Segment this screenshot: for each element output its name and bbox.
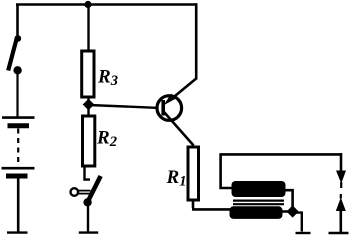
- wire winding top right down: [285, 190, 293, 209]
- key S2 (telegraph key contact): [71, 176, 101, 207]
- wire junction to terminal: [294, 213, 302, 232]
- node secondary junction: [287, 205, 299, 217]
- transformer T1 primary winding: [232, 181, 286, 197]
- svg-text:R3: R3: [97, 67, 118, 90]
- wire emitter to top rail: [195, 3, 198, 79]
- svg-text:R1: R1: [166, 167, 187, 190]
- wire winding top-left loop to spark gap: [221, 154, 341, 188]
- switch S1 (open knife switch): [8, 35, 22, 74]
- wire secondary right lead: [282, 210, 289, 213]
- terminal bar key: [79, 231, 98, 233]
- node top junction: [84, 1, 91, 8]
- terminal bar secondary: [296, 232, 311, 234]
- spark gap upper electrode: [336, 153, 346, 188]
- spark gap lower electrode: [329, 194, 349, 233]
- svg-text:R2: R2: [96, 128, 117, 151]
- transformer T1 secondary winding: [230, 206, 283, 219]
- wire base to transistor: [89, 105, 156, 108]
- wire top rail: [16, 3, 197, 6]
- wire left vertical to switch: [16, 5, 19, 37]
- node base junction: [83, 99, 95, 111]
- transistor V1 (PNP): [157, 79, 196, 146]
- wire R2 to key: [83, 166, 90, 180]
- resistor R3: [82, 51, 94, 97]
- battery GB1 (two cells): [2, 118, 35, 233]
- wire key to terminal: [87, 205, 89, 232]
- wire R1 to winding: [192, 200, 231, 209]
- resistor R2: [83, 116, 95, 166]
- wire R3 to node: [87, 97, 89, 116]
- transformer core: [233, 200, 284, 202]
- wire top rail to R3: [87, 5, 89, 52]
- wire switch to battery: [16, 73, 18, 117]
- resistor R1: [188, 147, 199, 200]
